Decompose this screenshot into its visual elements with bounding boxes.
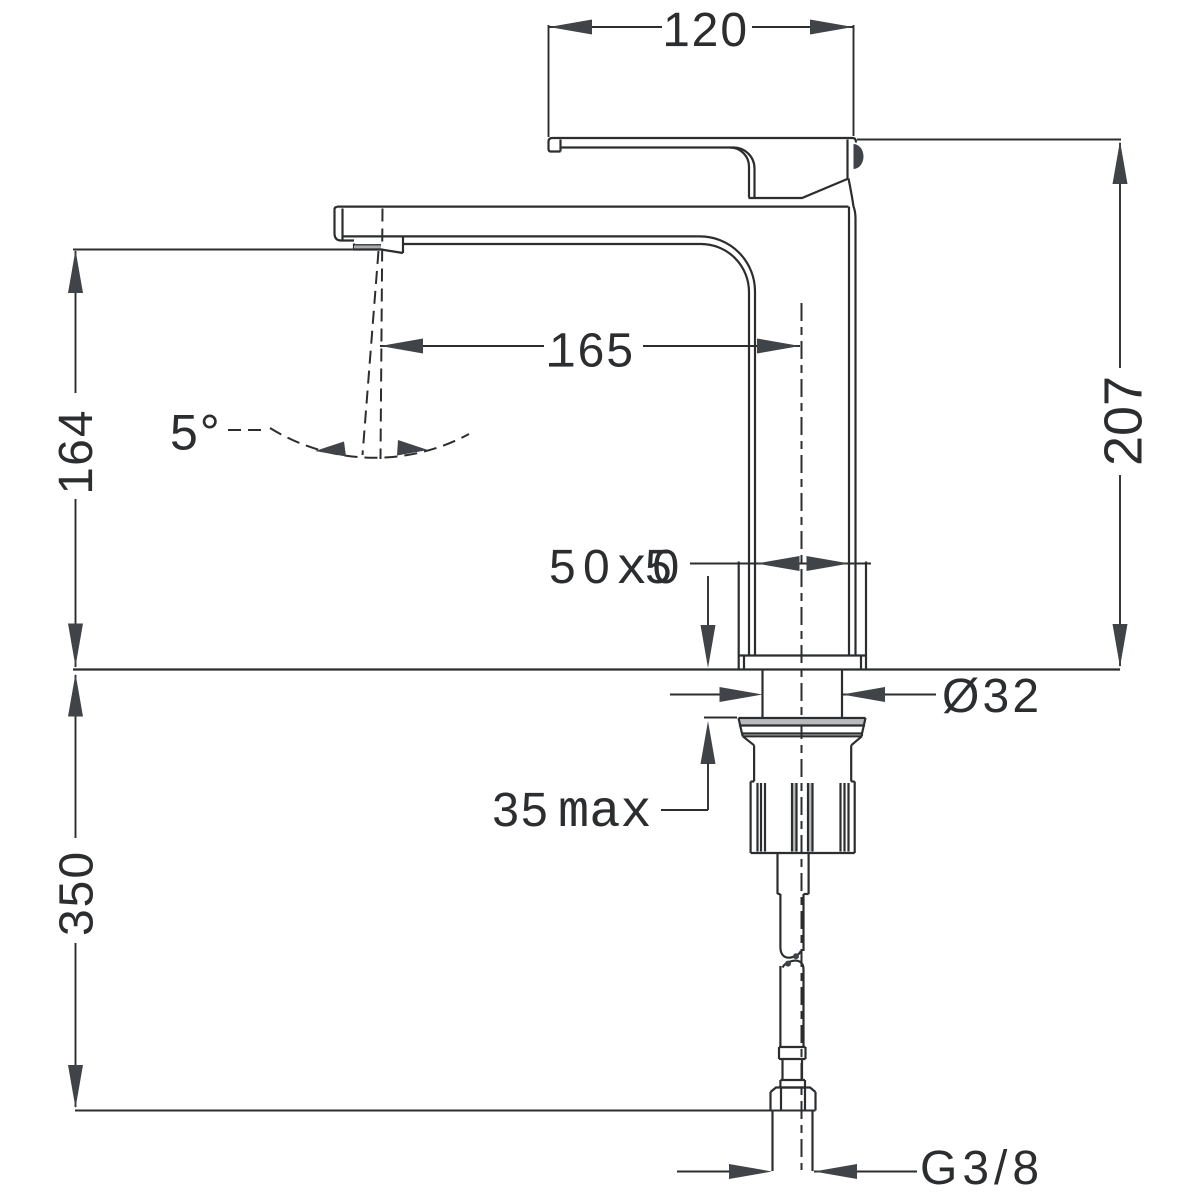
svg-text:120: 120 <box>663 4 749 57</box>
svg-text:165: 165 <box>549 325 635 378</box>
hose end collar <box>779 1047 806 1088</box>
svg-text:max: max <box>558 783 652 842</box>
dashed stream lines <box>381 209 383 460</box>
svg-text:Ø32: Ø32 <box>942 670 1042 723</box>
dimension 164 <box>50 250 354 668</box>
label 5 degrees with dashed leader <box>170 405 262 461</box>
svg-text:5: 5 <box>549 541 576 594</box>
svg-text:0: 0 <box>653 541 680 594</box>
knurled nut <box>751 782 855 854</box>
hose tailpiece <box>778 853 809 894</box>
bottom connector tube <box>773 1111 813 1172</box>
mounting nut <box>739 718 866 736</box>
svg-text:5°: 5° <box>170 405 222 461</box>
dimension 50x50 <box>549 540 871 599</box>
aerator <box>354 237 403 253</box>
dimension diameter 32 <box>670 670 1042 723</box>
dimension 35 max <box>492 576 737 842</box>
svg-text:G3/8: G3/8 <box>920 1142 1044 1195</box>
spout tip <box>335 207 355 241</box>
lever handle outline <box>549 138 857 152</box>
dimension G3/8 <box>677 1142 1044 1195</box>
base <box>739 562 866 670</box>
lever pivot bulge <box>854 144 864 169</box>
counter line <box>73 668 1120 670</box>
swivel arc with arrows <box>270 428 469 458</box>
spout to column arcs <box>700 236 755 655</box>
dimension 165 <box>380 325 800 378</box>
svg-text:0: 0 <box>583 541 610 594</box>
svg-text:164: 164 <box>50 408 103 494</box>
dimension 207 <box>857 140 1154 668</box>
spout top edge and body right edge <box>337 206 849 208</box>
cartridge cone and cylinder <box>743 736 862 781</box>
svg-text:350: 350 <box>51 850 104 936</box>
threaded shank <box>763 670 843 718</box>
dimension 350 <box>51 674 816 1111</box>
flexible hose with break symbol <box>780 894 803 1047</box>
dimension 120 <box>549 4 854 137</box>
spout bottom lines <box>343 235 701 237</box>
svg-text:x: x <box>616 540 647 599</box>
svg-text:35: 35 <box>492 784 549 837</box>
lever right end and neck <box>749 140 849 199</box>
svg-text:207: 207 <box>1094 376 1154 466</box>
column outer right continuation in base <box>854 562 856 656</box>
lever back bend <box>730 147 755 198</box>
body centerline <box>801 303 803 1170</box>
G3/8 hex nut <box>771 1088 816 1111</box>
column inner right line <box>848 207 850 656</box>
